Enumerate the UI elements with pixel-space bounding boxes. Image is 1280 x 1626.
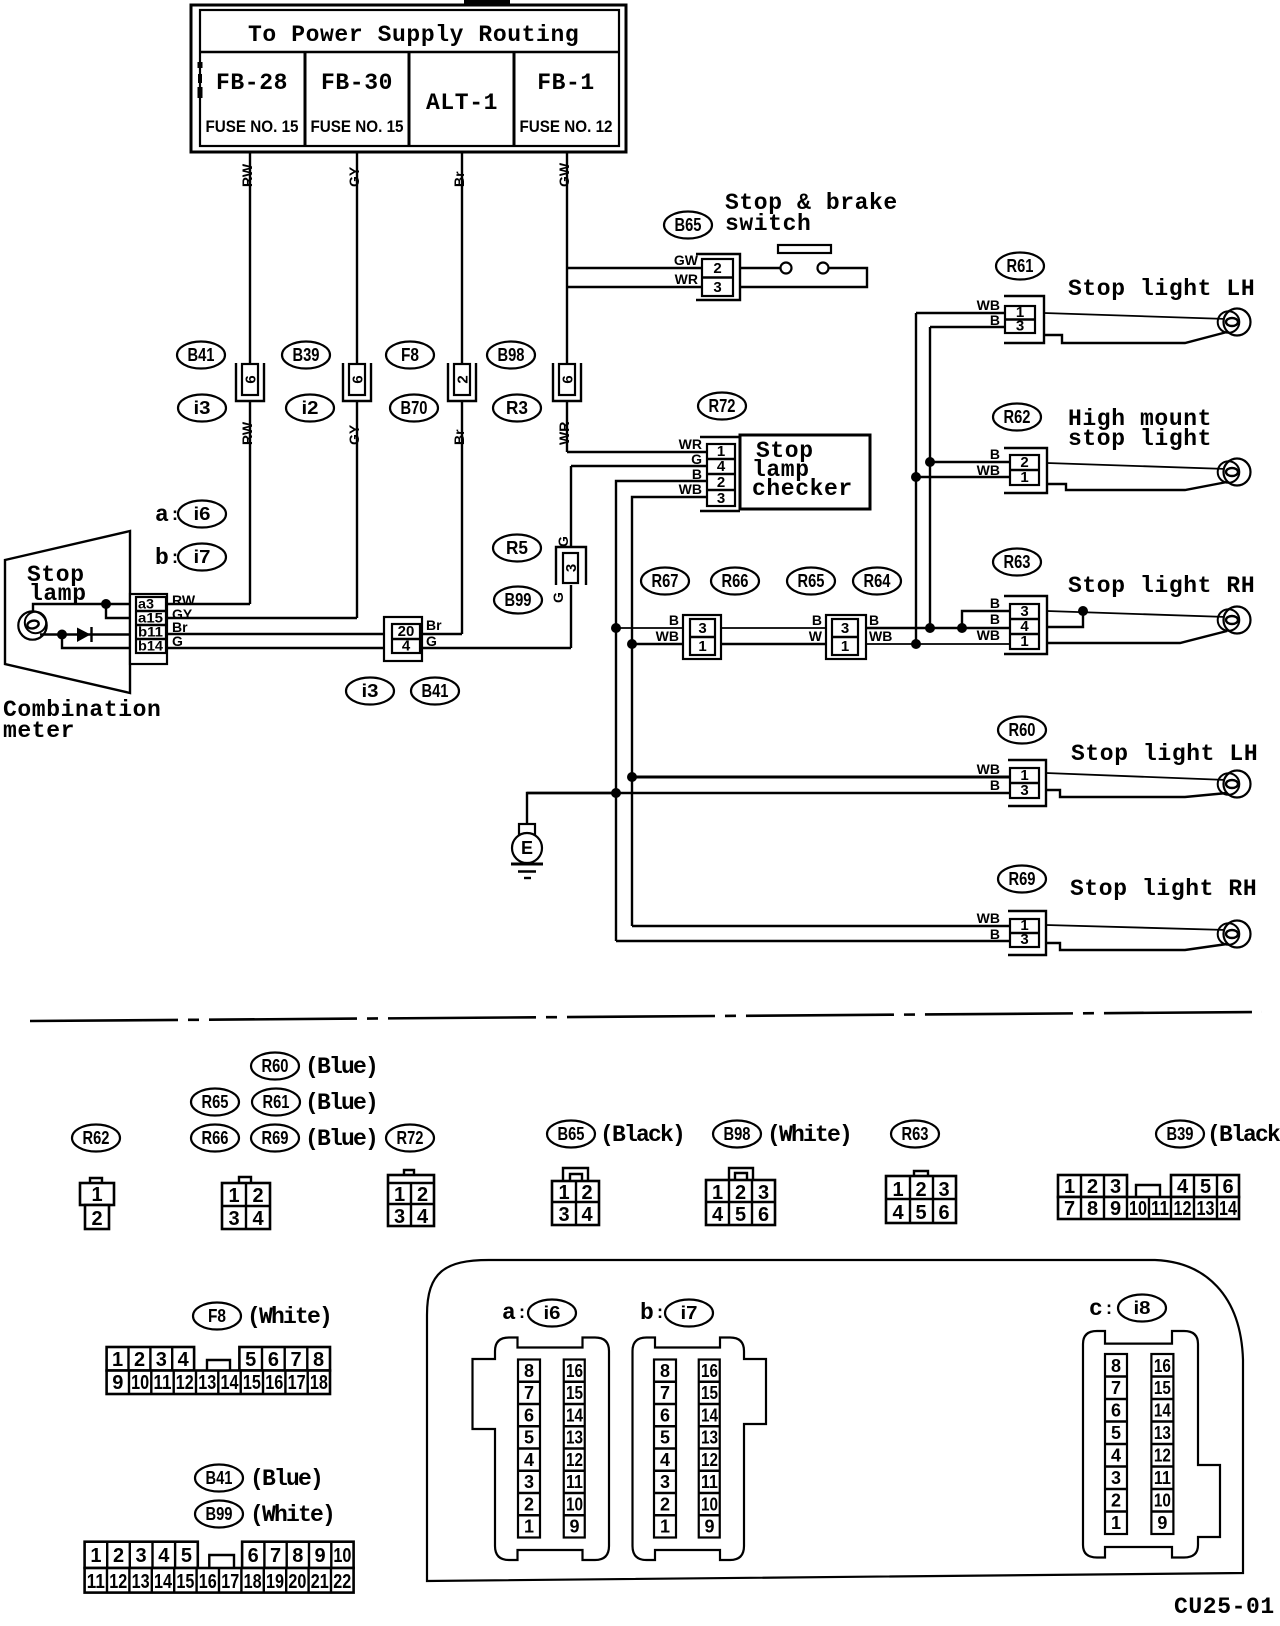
svg-text:5: 5 (1111, 1423, 1121, 1443)
connector diagram R63 (886, 1176, 956, 1224)
stop light RH lamp filament (1226, 616, 1238, 624)
svg-text:B: B (692, 466, 702, 482)
svg-text:4: 4 (660, 1450, 670, 1470)
svg-text:R72: R72 (397, 1128, 424, 1148)
svg-text:5: 5 (1200, 1176, 1211, 1198)
connector diagram B65 (552, 1181, 599, 1226)
connector diagram R62 (80, 1183, 114, 1230)
svg-text:FB-1: FB-1 (537, 70, 595, 96)
svg-text:9: 9 (569, 1517, 579, 1537)
R72 oval bottom (386, 1125, 434, 1152)
connector diagram B39 left top block (1058, 1175, 1127, 1198)
svg-text:(Blue): (Blue) (305, 1126, 377, 1152)
svg-text:3: 3 (1111, 1468, 1121, 1488)
svg-text:6: 6 (938, 1202, 949, 1224)
svg-text:1: 1 (1020, 469, 1028, 486)
R5 oval (493, 535, 541, 562)
cell divider ALT-1/FB-1 (513, 52, 516, 146)
svg-text:1: 1 (892, 1179, 903, 1201)
svg-text:i3: i3 (194, 398, 211, 418)
svg-text:3: 3 (1110, 1176, 1121, 1198)
svg-text:B: B (990, 926, 1000, 942)
connector diagram R63 tab (914, 1171, 928, 1176)
svg-text:Br: Br (426, 617, 442, 633)
svg-text:R61: R61 (263, 1092, 290, 1112)
wire WB to R61 pin1 (916, 312, 1005, 314)
wire branch to a15 (106, 604, 136, 618)
connector diagram R72 (388, 1175, 434, 1228)
svg-text:2: 2 (113, 1545, 124, 1567)
junction WB vertical / WB row (627, 639, 637, 649)
svg-text:1: 1 (228, 1185, 239, 1207)
svg-text:3: 3 (1016, 318, 1024, 335)
svg-text:1: 1 (1020, 633, 1028, 650)
svg-text:13: 13 (132, 1571, 150, 1593)
svg-text:a: a (155, 502, 169, 528)
connector i6 housing (473, 1338, 610, 1561)
R66 oval bottom (191, 1125, 239, 1152)
connector diagram B39 right top block (1171, 1175, 1239, 1198)
connector i8 housing (1083, 1331, 1220, 1558)
switch bar (778, 245, 831, 253)
svg-text:8: 8 (313, 1349, 324, 1371)
connector R65/R64 outer (826, 615, 866, 659)
R60 oval (998, 717, 1046, 744)
F8 oval bottom (193, 1303, 241, 1330)
svg-text:3: 3 (394, 1206, 405, 1228)
svg-text:R67: R67 (652, 571, 679, 591)
svg-text:b: b (155, 545, 169, 571)
connector diagram B41/B99 bottom row (85, 1568, 354, 1593)
ground E terminal neck (519, 824, 535, 835)
connector diagram 2x2 tab (239, 1177, 251, 1183)
svg-text:1: 1 (394, 1184, 405, 1206)
svg-text:19: 19 (266, 1571, 284, 1593)
stop light LH lamp body top (1044, 313, 1227, 319)
svg-text:11: 11 (154, 1372, 172, 1394)
switch contact right (818, 263, 829, 274)
svg-text:14: 14 (701, 1406, 718, 1426)
cut-off text remnant at top edge (464, 0, 510, 4)
svg-text:17: 17 (221, 1571, 239, 1593)
wire a3 to RW (167, 603, 250, 605)
inline connector R5/B99 on G wire (556, 547, 586, 585)
svg-text:3: 3 (1020, 931, 1028, 948)
svg-text:15: 15 (243, 1372, 261, 1394)
svg-text:B: B (990, 777, 1000, 793)
B99 oval bottom (195, 1501, 243, 1528)
svg-text:12: 12 (566, 1450, 583, 1470)
svg-text:5: 5 (660, 1428, 670, 1448)
svg-text:(Blue): (Blue) (305, 1090, 377, 1116)
svg-text:7: 7 (270, 1545, 281, 1567)
svg-text:R62: R62 (83, 1128, 110, 1148)
dash-dot separator line (30, 1012, 1262, 1021)
wire R63 pin1 to lamp (1047, 631, 1227, 643)
svg-text:1: 1 (841, 638, 849, 655)
connector R61 cells (1005, 304, 1035, 335)
junction WB vertical / R62 (911, 472, 921, 482)
svg-text:7: 7 (1064, 1198, 1075, 1220)
svg-text:WR: WR (679, 436, 702, 452)
wire WB row segment 2 (721, 643, 826, 645)
wire B vertical lower + R69 row (616, 940, 1010, 942)
svg-text:2: 2 (1087, 1176, 1098, 1198)
svg-text:Br: Br (451, 171, 467, 187)
connector F8 oval (386, 342, 434, 369)
svg-text:5: 5 (245, 1349, 256, 1371)
svg-text:G: G (426, 633, 437, 649)
svg-text:GY: GY (346, 424, 362, 445)
svg-text:10: 10 (1154, 1491, 1171, 1511)
wire B to R60 pin3 (527, 792, 1010, 794)
svg-text:B: B (812, 612, 822, 628)
stop light RH lamp body top (1046, 925, 1227, 930)
wire G into checker pin4 (571, 465, 707, 467)
wire a15 to GY (167, 617, 357, 619)
svg-text:Stop light LH: Stop light LH (1068, 276, 1255, 302)
svg-text:WB: WB (977, 297, 1000, 313)
svg-text:6: 6 (1222, 1176, 1233, 1198)
svg-text:13: 13 (566, 1428, 583, 1448)
svg-text::: : (519, 1302, 525, 1322)
R67 oval (641, 568, 689, 595)
junction jog (957, 623, 967, 633)
title divider (200, 51, 619, 53)
connector comb meter outer (130, 594, 167, 664)
wire B row segment 1 (616, 627, 683, 629)
svg-text:14: 14 (1154, 1401, 1171, 1421)
svg-text:3: 3 (136, 1545, 147, 1567)
connector R60 cells (1010, 767, 1039, 799)
wire B row segment 3 (866, 627, 1010, 629)
svg-text:1: 1 (112, 1349, 123, 1371)
svg-text:10: 10 (131, 1372, 149, 1394)
harness outline rounded box (427, 1260, 1243, 1581)
svg-text:2: 2 (660, 1495, 670, 1515)
svg-text:B41: B41 (188, 345, 215, 365)
connector diagram 2x2 (R60/R61/R65/R66/R69) (222, 1183, 270, 1230)
svg-text:i3: i3 (362, 681, 379, 701)
svg-text:3: 3 (713, 279, 721, 296)
svg-text:4: 4 (402, 638, 411, 655)
switch contact left (781, 263, 792, 274)
svg-text:11: 11 (566, 1472, 583, 1492)
R63 oval (993, 549, 1041, 576)
svg-text:3: 3 (1020, 782, 1028, 799)
connector i8 left pin column (1105, 1354, 1127, 1534)
cell divider FB-28/FB-30 (304, 52, 307, 146)
svg-text:10: 10 (333, 1545, 351, 1567)
B98 oval bottom (713, 1121, 761, 1148)
connector diagram B98 (706, 1180, 775, 1226)
connector diagram B65 tab (563, 1168, 588, 1181)
svg-text:14: 14 (1219, 1198, 1238, 1220)
svg-text:11: 11 (1154, 1468, 1171, 1488)
power supply routing box outer frame (191, 5, 626, 152)
svg-text:15: 15 (176, 1571, 194, 1593)
svg-text:switch: switch (725, 211, 811, 237)
svg-text:E: E (521, 838, 533, 858)
svg-text:B: B (990, 312, 1000, 328)
svg-text:2: 2 (713, 260, 721, 277)
connector diagram B41/B99 top-right block (242, 1542, 354, 1568)
connector diagram B41/B99 top-left block (85, 1542, 198, 1568)
wire bulb to diode (40, 633, 136, 635)
b : i7 oval (155, 544, 226, 572)
svg-text:R5: R5 (506, 538, 528, 558)
connector R69 cells (1010, 917, 1039, 948)
svg-text:R64: R64 (864, 571, 891, 591)
inline connector F8/B70 on Br wire (448, 363, 476, 401)
connector diagram F8 top-right block (239, 1347, 330, 1371)
connector B65 bracket (696, 254, 740, 300)
a : i6 oval (bottom) (502, 1300, 576, 1327)
wire 4-cell to G vertical (422, 647, 571, 649)
connector R67/R66 outer (683, 615, 721, 659)
svg-text:13: 13 (1197, 1198, 1215, 1220)
svg-text:3: 3 (938, 1179, 949, 1201)
svg-text:B99: B99 (505, 590, 532, 610)
wire WB from checker pin3 (632, 497, 707, 926)
svg-text:14: 14 (154, 1571, 173, 1593)
inline connector B41/i3 on RW wire (236, 363, 264, 401)
wire WB vertical R61-R62-R63 (915, 313, 917, 644)
b : i7 oval (bottom) (640, 1300, 713, 1327)
svg-text:8: 8 (1087, 1198, 1098, 1220)
svg-text:1: 1 (660, 1517, 670, 1537)
svg-text:12: 12 (1154, 1446, 1171, 1466)
svg-text:B39: B39 (293, 345, 320, 365)
connector B65 cells (702, 259, 733, 296)
svg-text:GW: GW (674, 252, 699, 268)
connector i7 right pin column (699, 1360, 720, 1538)
stop light LH lamp bulb (1224, 771, 1251, 798)
wire RW vertical upper (249, 152, 251, 363)
R69 oval (998, 866, 1046, 893)
svg-text:6: 6 (560, 375, 577, 383)
connector diagram B98 tab (729, 1168, 753, 1180)
svg-text:GY: GY (346, 166, 362, 187)
svg-text:b: b (640, 1300, 654, 1326)
R72 oval (698, 393, 746, 420)
svg-text:16: 16 (1154, 1356, 1171, 1376)
svg-text:B: B (990, 611, 1000, 627)
combination meter outline (5, 531, 130, 693)
svg-text:G: G (691, 451, 702, 467)
svg-text:(White): (White) (247, 1304, 331, 1330)
ground E circle (512, 833, 542, 863)
svg-text:2: 2 (91, 1208, 102, 1230)
svg-text:i2: i2 (302, 398, 319, 418)
svg-text:2: 2 (717, 474, 725, 491)
svg-text:3: 3 (228, 1208, 239, 1230)
svg-text:12: 12 (1174, 1198, 1192, 1220)
svg-text:FUSE NO. 12: FUSE NO. 12 (520, 117, 613, 136)
svg-text:3: 3 (558, 1204, 569, 1226)
svg-text:R63: R63 (1004, 552, 1031, 572)
svg-text:4: 4 (1177, 1176, 1189, 1198)
svg-text:i8: i8 (1134, 1298, 1151, 1318)
wire WB row segment 1 (632, 643, 683, 645)
svg-text:i6: i6 (544, 1303, 561, 1323)
svg-text:9: 9 (112, 1372, 123, 1394)
connector 20/4 outer (384, 617, 422, 661)
svg-text:15: 15 (566, 1383, 583, 1403)
scan specks on FB-28 cell left border (198, 62, 203, 98)
svg-text:13: 13 (1154, 1423, 1171, 1443)
svg-text:Br: Br (451, 429, 467, 445)
svg-text:(Blue): (Blue) (305, 1054, 377, 1080)
connector i7 left pin column (654, 1360, 676, 1538)
svg-text:G: G (550, 592, 566, 603)
svg-text:RW: RW (239, 163, 255, 187)
svg-text:B41: B41 (206, 1468, 233, 1488)
svg-text:(Blue): (Blue) (250, 1466, 322, 1492)
svg-text:B65: B65 (558, 1124, 585, 1144)
junction B vertical end (925, 623, 935, 633)
svg-text:4: 4 (581, 1204, 593, 1226)
svg-text:2: 2 (134, 1349, 145, 1371)
B99 oval (494, 587, 542, 614)
svg-text:meter: meter (3, 718, 75, 744)
svg-text:R65: R65 (798, 571, 825, 591)
R62 oval (993, 404, 1041, 431)
svg-text:(Black): (Black) (1207, 1122, 1280, 1148)
svg-text:2: 2 (524, 1495, 534, 1515)
stop light RH lamp bulb (1224, 607, 1251, 634)
svg-text:R63: R63 (902, 1124, 929, 1144)
svg-text:RW: RW (239, 421, 255, 445)
wire WR from B65 pin3 (567, 286, 702, 288)
connector diagram F8 top-left block (107, 1347, 195, 1371)
svg-text:WB: WB (977, 462, 1000, 478)
wire GY vertical lower (356, 401, 358, 618)
svg-text:To Power Supply Routing: To Power Supply Routing (248, 22, 579, 48)
svg-text:8: 8 (292, 1545, 303, 1567)
svg-text:11: 11 (87, 1571, 105, 1593)
svg-text:18: 18 (244, 1571, 262, 1593)
svg-text:1: 1 (698, 638, 706, 655)
svg-text:Stop light RH: Stop light RH (1070, 876, 1257, 902)
connector R72 cells (707, 443, 735, 507)
svg-text:i7: i7 (194, 547, 211, 567)
svg-text:22: 22 (333, 1571, 351, 1593)
svg-text:2: 2 (417, 1184, 428, 1206)
svg-text:15: 15 (701, 1383, 718, 1403)
svg-text:R3: R3 (506, 398, 528, 418)
connector B41 oval (177, 342, 225, 369)
wire Br vertical upper (461, 152, 463, 363)
svg-text:7: 7 (1111, 1378, 1121, 1398)
stop light LH lamp body bottom (1046, 790, 1227, 797)
svg-text:9: 9 (704, 1517, 714, 1537)
svg-text:1: 1 (1064, 1176, 1075, 1198)
wire B from checker pin2 (616, 481, 707, 941)
svg-text:2: 2 (735, 1182, 746, 1204)
svg-text:R60: R60 (1009, 720, 1036, 740)
cell divider FB-30/ALT-1 (408, 52, 411, 146)
stop lamp bulb (18, 611, 46, 639)
B65 oval bottom (547, 1121, 595, 1148)
stop lamp checker box (740, 435, 870, 509)
svg-text:R66: R66 (202, 1128, 229, 1148)
svg-text:R61: R61 (1007, 256, 1034, 276)
connector i6 right pin column (564, 1360, 585, 1538)
B41 oval bottom (195, 1465, 243, 1492)
svg-text:G: G (555, 536, 571, 547)
svg-text:10: 10 (701, 1495, 718, 1515)
ground bars (511, 864, 543, 878)
connector R3 oval (493, 395, 541, 422)
svg-text:CU25-01: CU25-01 (1174, 1594, 1275, 1620)
svg-text:20: 20 (288, 1571, 306, 1593)
connector i7 housing (633, 1338, 767, 1561)
connector B98 oval (487, 342, 535, 369)
connector R62 cells (1010, 454, 1039, 486)
wire GW to B65 pin2 (567, 267, 702, 269)
svg-text:1: 1 (558, 1182, 569, 1204)
wire WR vertical lower (566, 401, 568, 452)
ground wire from E (527, 793, 616, 824)
R63 oval bottom (891, 1121, 939, 1148)
svg-text:8: 8 (1111, 1356, 1121, 1376)
stop light LH lamp filament (1226, 780, 1238, 788)
R64 oval (853, 568, 901, 595)
svg-text:(Black): (Black) (600, 1122, 684, 1148)
svg-text:R69: R69 (1009, 869, 1036, 889)
stop light RH lamp filament (1226, 930, 1238, 938)
svg-text:R62: R62 (1004, 407, 1031, 427)
wire GW vertical (566, 152, 568, 287)
R61 oval bottom (252, 1089, 300, 1116)
svg-text:8: 8 (660, 1361, 670, 1381)
svg-text:12: 12 (176, 1372, 194, 1394)
svg-text:R65: R65 (202, 1092, 229, 1112)
svg-text:b14: b14 (138, 638, 163, 654)
svg-text:4: 4 (178, 1349, 190, 1371)
svg-text:11: 11 (1151, 1198, 1169, 1220)
wire WR into checker pin1 (567, 451, 707, 453)
wire GY vertical upper (356, 152, 358, 363)
high mount lamp filament (1226, 468, 1238, 476)
wire b11 to 20-cell (167, 633, 384, 635)
switch return wire (740, 268, 867, 287)
R62 oval bottom (72, 1125, 120, 1152)
connector i3 oval (178, 395, 226, 422)
svg-text:3: 3 (717, 490, 725, 507)
svg-text:WB: WB (977, 627, 1000, 643)
jog pin4 to pin3 (1047, 611, 1083, 627)
inline connector B39/i2 on GY wire (343, 363, 371, 401)
svg-text:4: 4 (417, 1206, 429, 1228)
svg-text:WR: WR (556, 422, 572, 445)
svg-text:9: 9 (1110, 1198, 1121, 1220)
svg-text:GW: GW (556, 162, 572, 187)
svg-text::: : (657, 1302, 663, 1322)
svg-text:B98: B98 (724, 1124, 751, 1144)
stop light LH lamp filament (1226, 318, 1238, 326)
svg-text:18: 18 (310, 1372, 328, 1394)
R65 oval bottom (191, 1089, 239, 1116)
svg-text:3: 3 (841, 620, 849, 637)
svg-text:FB-30: FB-30 (321, 70, 393, 96)
svg-text:16: 16 (566, 1361, 583, 1381)
high mount lamp body bottom (1047, 482, 1227, 490)
svg-text:W: W (809, 628, 823, 644)
junction R63 right jog (1078, 606, 1088, 616)
wire 20-cell to Br vertical (422, 633, 462, 635)
